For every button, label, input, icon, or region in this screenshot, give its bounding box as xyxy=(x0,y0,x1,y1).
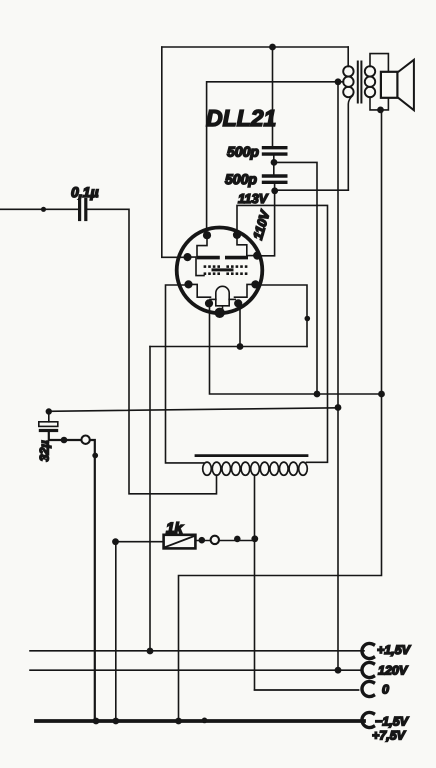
svg-text:DLL21: DLL21 xyxy=(206,105,276,131)
wire tube P1 riser to transformer tap xyxy=(207,82,344,235)
node junction resistor right at tap line xyxy=(251,535,258,542)
choke L1 core bar xyxy=(196,454,307,457)
wire from C3 junction to primary bottom xyxy=(275,189,349,191)
tube pin P2 xyxy=(233,231,241,239)
node junction C4 return at thick rail xyxy=(93,718,100,725)
wire resistor left to thick rail xyxy=(115,542,117,721)
node junction 120V line at terminal wire xyxy=(335,667,342,674)
node blob on C4 return xyxy=(92,453,98,459)
tube DLL21 envelope circle xyxy=(177,227,263,313)
speaker LS1 driver box xyxy=(381,72,398,98)
svg-text:0,1µ: 0,1µ xyxy=(71,184,99,200)
wire C3 to tube pin P4 xyxy=(258,182,275,256)
node junction 32u top xyxy=(46,408,52,414)
transformer T1 core xyxy=(358,62,362,103)
node junction speaker bottom xyxy=(377,107,384,114)
speaker LS1 horn xyxy=(397,60,414,110)
tube pin P6 xyxy=(251,280,259,288)
tube pin P5 xyxy=(184,280,192,288)
tube pin P5 internal bracket xyxy=(189,284,211,297)
node junction at +1.5V wire xyxy=(147,648,154,655)
switch S1 contact dot xyxy=(61,437,68,444)
wire secondary bottom to speaker xyxy=(370,97,388,110)
wire from C2-C3 junction down to filament net xyxy=(274,162,317,394)
wire resistor left lead xyxy=(116,541,164,543)
tube filament base right xyxy=(229,298,235,300)
svg-text:120V: 120V xyxy=(378,664,409,678)
svg-text:110V: 110V xyxy=(250,208,273,242)
capacitor C3 500p bottom plate xyxy=(264,181,286,184)
capacitor C1 0,1u right plate xyxy=(84,200,87,220)
node junction speaker return at thick rail xyxy=(175,718,182,725)
tube pin P1 xyxy=(203,231,211,239)
node antenna dot xyxy=(41,207,46,212)
svg-text:500p: 500p xyxy=(227,144,259,160)
tube filament arch xyxy=(216,286,229,299)
switch S2 open contact xyxy=(211,536,219,544)
switch S1 open contact xyxy=(81,436,89,444)
node junction speaker return at y394 xyxy=(378,391,385,398)
tube anode bar right xyxy=(227,256,246,260)
wire antenna input xyxy=(0,208,78,210)
capacitor C3 500p top plate xyxy=(264,174,286,177)
wire main vertical from top rail to C2 xyxy=(272,47,274,146)
node junction pin P8 line xyxy=(237,343,244,350)
resistor R1 diagonal xyxy=(166,536,194,547)
switch S2 contact dot left xyxy=(199,537,206,544)
tube pin P9 center spigot xyxy=(215,308,225,318)
tube pin P7 xyxy=(205,299,213,307)
svg-text:113V: 113V xyxy=(238,191,269,206)
tube pin P4 internal wire xyxy=(247,255,257,257)
wire top B+ rail xyxy=(162,46,348,48)
tube anode lead left xyxy=(197,235,207,256)
svg-text:+7,5V: +7,5V xyxy=(372,729,407,743)
transformer T1 secondary winding loops xyxy=(365,66,375,76)
wire 120V feed from transformer tap to bottom xyxy=(337,82,339,670)
transformer T1 primary bottom lead to C3 net xyxy=(348,96,352,190)
tube anode bar left xyxy=(199,256,219,260)
svg-text:+1,5V: +1,5V xyxy=(377,643,412,657)
svg-text:32µ: 32µ xyxy=(38,440,52,461)
node junction on top rail xyxy=(269,44,276,51)
tube pin P6 internal bracket xyxy=(235,284,256,297)
wire C1 to grid-coil drop xyxy=(88,209,217,494)
tube center screen bar xyxy=(213,268,232,271)
tube anode lead right xyxy=(237,235,247,256)
tube filament under-box xyxy=(216,299,229,305)
transformer T1 primary top lead xyxy=(347,47,349,67)
svg-text:0: 0 xyxy=(382,683,389,697)
switch S2 contact dot right xyxy=(234,536,241,543)
tube filament stem xyxy=(222,306,224,310)
tube filament base left xyxy=(210,298,216,300)
wire pin P8 drop xyxy=(239,304,241,347)
tube grid dots row 2 xyxy=(204,272,248,275)
tube pin P4 xyxy=(253,252,261,260)
terminal clip +1.5V xyxy=(362,643,374,658)
choke L1 winding loops xyxy=(203,462,308,475)
node junction transformer tap xyxy=(335,78,342,85)
node junction 120V line at choke feed xyxy=(335,404,342,411)
resistor R1 1k body xyxy=(164,535,196,549)
wire pin P7 drop and horizontal to speaker return xyxy=(210,304,382,395)
tube grid dots row 1 xyxy=(204,265,248,268)
wire speaker return vertical xyxy=(179,110,382,721)
node junction below C3 xyxy=(271,187,278,194)
wire right loop up to pin P6 xyxy=(256,285,307,347)
tube pin P3 internal wire xyxy=(188,257,205,276)
wire 0V stub to terminal xyxy=(255,689,359,691)
tube pin P3 xyxy=(183,253,191,261)
wire C2 to C3 xyxy=(273,154,275,176)
svg-text:500p: 500p xyxy=(225,171,257,187)
wire tube P2 grid riser to output coil right end xyxy=(237,205,328,462)
wire filament net to +1.5V terminal wire xyxy=(149,347,151,652)
capacitor C2 500p bottom plate xyxy=(264,152,286,155)
terminal clip 0V xyxy=(362,681,374,696)
wire secondary top to speaker xyxy=(370,54,388,72)
node dot on thick rail xyxy=(202,718,208,724)
node blob on P6 loop wire xyxy=(305,316,311,322)
wire -1.5/+7.5V thick battery rail xyxy=(36,719,364,723)
wire resistor right lead xyxy=(195,540,254,542)
capacitor C4 32u top plate outline xyxy=(39,422,58,427)
svg-text:−1,5V: −1,5V xyxy=(375,715,410,729)
wire left rail from top to tube pin P3 xyxy=(162,47,188,257)
node resistor left end dot xyxy=(112,538,119,545)
terminal clip 120V xyxy=(362,662,374,677)
wire filament horizontal below tube xyxy=(150,346,307,348)
wire tube P5 to choke left end xyxy=(166,285,204,463)
tube pin P8 xyxy=(234,299,242,307)
capacitor C2 500p top plate xyxy=(264,146,286,149)
terminal clip -1.5/+7.5V xyxy=(362,712,374,727)
wire +1.5V battery rail xyxy=(30,650,364,652)
wire 120V battery rail xyxy=(30,669,360,671)
wire C4 top lead xyxy=(48,412,50,422)
wire choke center tap to zero terminal xyxy=(255,475,359,690)
capacitor C1 0,1u left plate xyxy=(78,200,81,220)
wire 32u decoupling horizontal xyxy=(49,408,338,412)
node junction below C2 xyxy=(271,159,278,166)
node junction resistor drop at thick rail xyxy=(112,718,119,725)
capacitor C4 32u bottom plate solid xyxy=(39,429,58,432)
transformer T1 primary winding loops xyxy=(343,66,353,76)
node junction cap net at y394 xyxy=(314,391,321,398)
wire C4 bottom lead to switch xyxy=(49,432,95,721)
svg-text:1k: 1k xyxy=(166,520,183,537)
